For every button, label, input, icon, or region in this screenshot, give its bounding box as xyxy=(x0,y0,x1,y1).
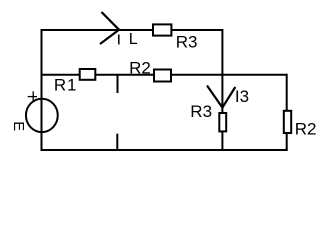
label I (bar under arrow) xyxy=(118,35,120,45)
resistor R3 (horizontal, top wire) xyxy=(153,24,171,35)
wire right vertical x=222 (top branch down through R3) xyxy=(221,29,223,150)
wire top (node A to node B) xyxy=(41,29,223,31)
svg-text:E: E xyxy=(10,121,26,131)
resistor R1 (horizontal, middle wire) xyxy=(80,69,96,80)
wire middle horizontal xyxy=(41,74,287,76)
svg-text:R3: R3 xyxy=(176,32,198,51)
voltage source E (circle) xyxy=(26,99,58,132)
svg-text:R2: R2 xyxy=(295,119,317,138)
svg-text:R2: R2 xyxy=(129,59,151,78)
resistor R3 (vertical) xyxy=(219,113,226,131)
resistor R2 (horizontal, middle wire) xyxy=(154,70,171,82)
wire rightmost vertical x=287 xyxy=(286,74,288,150)
svg-text:I3: I3 xyxy=(235,87,249,106)
wire stub above bottom wire xyxy=(116,134,118,150)
current arrow I3 (pointing down into R3 vertical) xyxy=(207,86,235,108)
wire stub below middle wire xyxy=(117,75,119,93)
svg-text:R3: R3 xyxy=(190,102,212,121)
resistor R2 (vertical, right) xyxy=(284,111,291,133)
svg-text:L: L xyxy=(129,31,138,48)
plus sign xyxy=(28,91,37,101)
wire left vertical xyxy=(41,29,43,151)
current arrow IL on top wire xyxy=(100,12,119,44)
wire bottom xyxy=(41,149,288,151)
svg-text:R1: R1 xyxy=(54,76,77,95)
